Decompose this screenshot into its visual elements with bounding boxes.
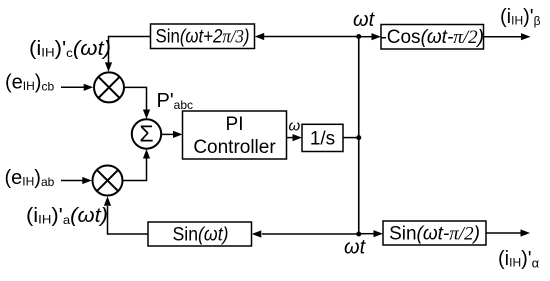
svg-text:Sin(ωt+2π/3): Sin(ωt+2π/3)	[155, 27, 249, 48]
svg-text:Σ: Σ	[139, 121, 153, 147]
wire: bus to Sin(wt) block	[262, 233, 359, 235]
block: Sin(wt)	[148, 222, 252, 246]
wire: 1/s output to bus junction	[343, 137, 359, 139]
wire: (e_IH)ab input into M2	[61, 180, 83, 182]
block: Sin(wt+2pi/3)	[151, 24, 255, 49]
svg-text:ωt: ωt	[344, 237, 367, 259]
wire: M2 output into summer bottom	[123, 158, 147, 181]
wire: Sin(wt) output left and up into M2	[108, 206, 149, 234]
block: 1/s integrator	[302, 124, 343, 151]
block: -Cos(wt-pi/2)	[380, 25, 484, 50]
summer S1	[132, 119, 161, 148]
block: PI Controller	[183, 111, 287, 159]
svg-text:-Cos(ωt-π/2): -Cos(ωt-π/2)	[380, 27, 484, 48]
node: junction dot middle	[356, 135, 361, 140]
svg-text:ωt: ωt	[353, 9, 376, 31]
wire: Sin(wt+2pi/3) output down into multiplier M1	[109, 37, 151, 64]
wire: Sin(wt-pi/2) output arrow to alpha	[486, 232, 522, 234]
multiplier M1 (top)	[94, 72, 124, 102]
node: junction dot bottom	[356, 232, 361, 237]
wire: -Cos output arrow to beta	[484, 36, 523, 38]
wire: bus to Sin(wt-pi/2) block	[359, 233, 374, 235]
svg-text:Controller: Controller	[193, 137, 276, 158]
multiplier M2 (bottom)	[93, 166, 123, 196]
svg-text:1/s: 1/s	[310, 129, 335, 150]
block: Sin(wt-pi/2)	[383, 221, 486, 245]
wire: PI controller output into 1/s	[287, 137, 294, 139]
svg-text:PI: PI	[226, 114, 244, 135]
node: junction dot top	[356, 34, 361, 39]
svg-text:Sin(ωt): Sin(ωt)	[173, 225, 229, 246]
wire: bus to -Cos block	[359, 36, 373, 38]
wire: summer output into PI controller	[161, 133, 174, 135]
wire: omega-t vertical feedback bus	[358, 37, 360, 235]
wire: (e_IH)cb input into M1	[61, 86, 85, 88]
wire: M1 output into summer top	[124, 87, 146, 110]
svg-text:Sin(ωt-π/2): Sin(ωt-π/2)	[389, 224, 480, 245]
wire: bus to Sin(wt+2pi/3) block	[263, 36, 359, 38]
svg-text:ω: ω	[289, 118, 301, 135]
